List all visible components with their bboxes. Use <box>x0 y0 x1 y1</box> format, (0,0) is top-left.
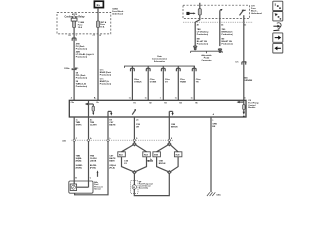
connector end 1 <box>194 46 197 50</box>
wire label C8B <box>171 124 178 129</box>
connector C7 pin 2x <box>235 62 248 65</box>
svg-text:BN/BT (Lt: BN/BT (Lt <box>100 80 110 83</box>
wire relay output circuit 4TB <box>73 28 75 101</box>
bridge 1 bottom junction <box>133 171 136 174</box>
svg-text:B+: B+ <box>97 3 101 7</box>
module internal sense 1 <box>108 111 112 117</box>
data wire 1 <box>131 66 133 100</box>
bridge 2 left box ESB <box>153 152 161 157</box>
twisted pair symbol <box>97 170 99 176</box>
svg-text:L/BOB: L/BOB <box>90 160 97 162</box>
svg-text:48: 48 <box>197 23 199 26</box>
svg-text:C6: C6 <box>68 35 70 37</box>
svg-text:21: 21 <box>76 68 78 70</box>
svg-text:BA/TE: BA/TE <box>109 124 116 127</box>
connector row C1 (dotted) <box>183 21 253 23</box>
svg-text:TN/BK: TN/BK <box>180 81 187 83</box>
svg-text:CL/WH: CL/WH <box>90 125 97 127</box>
svg-text:(ROM): (ROM) <box>76 167 82 169</box>
svg-text:45: 45 <box>221 23 223 26</box>
data bus bracket <box>125 66 195 68</box>
bridge 2 bottom junction <box>168 171 171 174</box>
module internal switch <box>132 109 136 115</box>
fuse F3 <box>198 9 201 15</box>
svg-text:Production): Production) <box>197 33 209 36</box>
toolbar button forward <box>273 33 283 42</box>
bridge 2 label <box>159 160 166 165</box>
wire contact to connector row <box>219 19 221 23</box>
fuel sensor box <box>69 181 93 193</box>
data wire 5 label <box>196 79 202 84</box>
svg-text:Production): Production) <box>197 43 209 46</box>
connector on data wire 3 <box>161 68 165 71</box>
wire B+ feed to fuse <box>97 8 99 21</box>
svg-text:Production): Production) <box>222 33 234 36</box>
connector on data wire 4 <box>176 68 180 71</box>
switch S1 <box>240 9 246 15</box>
svg-text:B+: B+ <box>94 97 96 99</box>
data wire 2 <box>147 66 149 100</box>
svg-text:15 A: 15 A <box>78 26 83 29</box>
svg-text:H3: H3 <box>164 102 166 104</box>
module internal sense 2 <box>169 111 173 117</box>
module internal driver 1 element <box>92 104 95 115</box>
fuse F2 MBTA <box>96 21 99 28</box>
svg-text:Underhood: Underhood <box>112 12 124 15</box>
junction A36 pin A <box>87 139 89 141</box>
relay KR75 <box>71 17 77 22</box>
svg-text:Production): Production) <box>100 83 112 86</box>
wire label C1B <box>136 124 141 129</box>
svg-text:Production): Production) <box>76 55 88 58</box>
svg-text:Production): Production) <box>222 43 234 46</box>
svg-text:Production): Production) <box>76 47 88 50</box>
svg-text:BR/GN: BR/GN <box>159 163 166 165</box>
data wire 4 label <box>180 79 187 84</box>
svg-text:Module: Module <box>248 107 256 109</box>
fuse block underhood (dashed box) <box>57 12 111 34</box>
junction A36 pin L <box>107 139 109 141</box>
bridge 2 right box RLB <box>174 152 182 157</box>
pump feed bend <box>134 184 135 185</box>
svg-text:BATE: BATE <box>109 159 115 162</box>
svg-text:Assembly: Assembly <box>139 187 149 190</box>
module internal output junction <box>243 116 245 118</box>
svg-text:(RUB): (RUB) <box>76 160 82 162</box>
svg-text:1: 1 <box>212 120 213 122</box>
fuel pump motor <box>132 185 136 190</box>
svg-text:B+: B+ <box>97 102 99 104</box>
wire pump return path <box>134 174 169 196</box>
junction A36 pin C <box>73 139 75 141</box>
toolbar button shrink <box>273 1 283 10</box>
data wire 1 label <box>134 79 142 84</box>
svg-text:Production): Production) <box>76 85 88 88</box>
bridge 1 top junction <box>133 143 136 146</box>
module internal driver 2 element <box>243 102 246 115</box>
wire label block TRB lower <box>90 155 97 169</box>
svg-text:Sensor: Sensor <box>94 188 101 191</box>
connector C7 pin B label <box>93 35 102 37</box>
bridge 1 label <box>124 160 129 165</box>
connector end 2 <box>218 49 221 52</box>
wire fuse F2 to module <box>97 27 99 100</box>
bridge 1 left arm <box>122 145 134 152</box>
svg-text:GRN/BK: GRN/BK <box>244 80 252 82</box>
module internal driver 2 arrow <box>237 101 244 104</box>
bridge 2 right leg <box>171 157 179 172</box>
module K111 fuel pump control module <box>69 100 246 117</box>
wire sensor low <box>75 117 108 195</box>
inline connector on wire 4TB <box>72 38 76 41</box>
svg-text:BR/GN: BR/GN <box>171 126 178 128</box>
connector row A36 (dotted) <box>72 139 174 141</box>
bridge 2 top junction <box>168 143 171 146</box>
svg-text:Connector: Connector <box>201 59 211 62</box>
wire bridge1 to pump <box>133 174 135 185</box>
node battery feed arrow <box>186 12 195 15</box>
bridge 1 left leg <box>122 157 134 172</box>
svg-text:1: 1 <box>160 97 161 99</box>
wire module ground <box>210 117 212 192</box>
svg-text:Production): Production) <box>76 77 88 80</box>
svg-text:RLB: RLB <box>144 155 149 157</box>
svg-text:M: M <box>133 187 135 189</box>
wire circuit 465 to module <box>243 22 245 100</box>
svg-text:(PLA): (PLA) <box>109 166 115 169</box>
toolbar button back <box>273 44 283 53</box>
svg-text:H2: H2 <box>149 102 151 104</box>
bridge 1 right leg <box>136 157 147 172</box>
data wire 3 <box>162 66 164 100</box>
connector C200 pin 21 <box>64 68 78 70</box>
node B+ battery feed <box>94 1 103 7</box>
wire label TRB <box>90 122 97 127</box>
module internal driver 1 wire <box>88 101 90 117</box>
wire pump supply <box>133 117 135 143</box>
wire circuit 7B9 <box>219 22 221 46</box>
svg-text:ESB: ESB <box>154 155 159 157</box>
wire label block C8Y lower <box>109 155 116 169</box>
svg-text:Schematics: Schematics <box>154 60 166 63</box>
data wire 2 label <box>150 79 157 84</box>
ground G402 <box>207 192 215 196</box>
svg-text:H5: H5 <box>195 102 197 104</box>
wire switch to connector row <box>243 15 245 22</box>
bridge 2 left leg <box>157 157 169 172</box>
svg-text:Underhood: Underhood <box>251 12 263 15</box>
svg-text:A36: A36 <box>62 139 65 142</box>
svg-text:Production): Production) <box>100 73 112 76</box>
svg-text:OR: OR <box>136 126 140 128</box>
svg-text:RLB: RLB <box>176 155 181 157</box>
wire label C8Y <box>109 122 116 127</box>
toolbar jump arrow <box>273 23 281 31</box>
svg-text:H1: H1 <box>133 102 135 104</box>
connector on data wire 1 <box>131 68 135 71</box>
svg-text:C7: C7 <box>93 35 95 37</box>
fuel pump box (dashed) <box>131 181 138 194</box>
feed stub fuse F3 <box>199 3 201 9</box>
fuse F1 7-VMA <box>73 21 76 28</box>
shield arrow <box>146 159 153 162</box>
bridge 2 right arm <box>171 145 179 152</box>
bridge 1 left box BLK <box>118 152 126 157</box>
svg-text:1: 1 <box>76 35 77 37</box>
wire sensor signal <box>88 117 90 187</box>
fuel sensor element <box>70 184 88 191</box>
svg-text:SH/PC: SH/PC <box>76 125 83 127</box>
connector on data wire 5 <box>192 68 196 71</box>
wire sensor 5V <box>73 117 75 184</box>
wire label TMB <box>76 122 83 127</box>
svg-text:GY/BK: GY/BK <box>150 81 157 83</box>
bridge 1 right box RLB <box>143 152 151 157</box>
connector C6 pin 1 label <box>68 35 76 37</box>
wire label block TMB lower <box>76 155 83 169</box>
relay contact K2 <box>220 9 223 19</box>
wire label GRN/BK <box>212 123 217 128</box>
svg-text:15 A: 15 A <box>100 26 105 29</box>
module internal driver 1 arrow <box>85 103 94 105</box>
svg-text:(PCM): (PCM) <box>90 167 96 169</box>
connector on data wire 2 <box>146 68 150 71</box>
junction A36 pin D <box>133 139 135 141</box>
junction A36 pin E <box>168 139 170 141</box>
wire pump return <box>168 117 170 143</box>
bridge 1 right arm <box>136 145 147 152</box>
svg-text:GY/BLK: GY/BLK <box>134 81 142 83</box>
brace group pedal connector <box>191 51 223 53</box>
wire circuit 7B8 <box>194 22 196 46</box>
data wire 4 <box>177 66 179 100</box>
data wire 3 label <box>165 79 171 84</box>
toolbar button enlarge <box>273 12 283 21</box>
wire fuse F3 to connector row <box>195 15 200 22</box>
data wire 5 <box>193 66 195 100</box>
fuse block underhood 2 (dashed box) <box>183 5 250 18</box>
bridge 2 left arm <box>157 145 169 152</box>
svg-text:BLK: BLK <box>119 155 124 157</box>
